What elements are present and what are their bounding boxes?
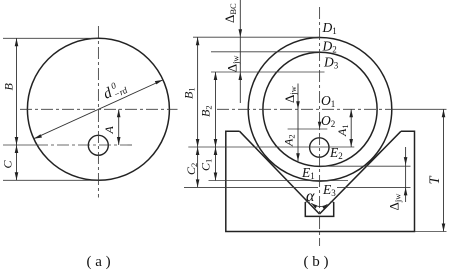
svg-text:D3: D3: [323, 55, 339, 71]
dimension djw right: [404, 147, 408, 202]
dimension C2: [196, 147, 200, 187]
svg-text:α: α: [306, 188, 315, 205]
V-block outline: [226, 131, 415, 231]
svg-text:Δjw: Δjw: [387, 193, 403, 211]
svg-text:D1: D1: [322, 20, 337, 36]
svg-text:A1: A1: [335, 124, 350, 137]
dimension C1: [214, 147, 218, 181]
top extension line (a): [3, 37, 98, 39]
svg-text:O2: O2: [321, 113, 335, 129]
notch top edge: [305, 201, 333, 203]
svg-text:E3: E3: [322, 182, 336, 198]
dimension line dBC/djw left: [239, 0, 243, 103]
svg-text:B2: B2: [199, 105, 214, 117]
dimension A (a): [117, 109, 121, 145]
extension of O1 line to T dim: [392, 108, 447, 110]
small hole circle (b): [310, 138, 329, 157]
svg-text:B1: B1: [182, 87, 197, 99]
vertical centerline (b): [319, 7, 321, 246]
dimension B (a): [15, 38, 19, 145]
svg-text:C1: C1: [199, 159, 214, 171]
inner bore circle (b): [263, 52, 377, 166]
base bottom extension: [415, 231, 447, 233]
dimension T: [442, 109, 446, 231]
D2 extension line: [211, 51, 320, 53]
D3 extension line: [211, 71, 325, 73]
svg-text:O1: O1: [321, 93, 335, 109]
svg-text:E1: E1: [301, 165, 315, 181]
svg-text:( a ): ( a ): [87, 254, 111, 270]
svg-text:Δjw: Δjw: [282, 85, 298, 103]
label d with tolerance (a): [100, 77, 129, 104]
dimension B1: [196, 37, 200, 147]
E2 line (inner bottom tangent): [320, 165, 411, 167]
dimension C (a): [15, 145, 19, 180]
svg-text:( b ): ( b ): [304, 254, 329, 270]
V face right: [320, 131, 401, 214]
arrow O1 to O2: [318, 122, 322, 129]
V face left: [240, 131, 320, 214]
D1 extension line: [193, 36, 320, 38]
svg-text:A: A: [102, 126, 116, 135]
svg-text:B: B: [2, 83, 16, 91]
E2/hole centerline at 147: [188, 146, 354, 148]
svg-text:T: T: [427, 176, 443, 185]
svg-text:ΔBC: ΔBC: [222, 3, 238, 23]
horizontal centerline O1 (b): [217, 108, 392, 110]
hole centerline (a): [3, 144, 36, 146]
O2 short centerline: [288, 128, 328, 130]
svg-text:Δjw: Δjw: [225, 55, 241, 73]
svg-text:C2: C2: [184, 163, 199, 175]
E1 line: [209, 180, 349, 182]
svg-text:C: C: [1, 160, 15, 169]
outer ring circle (b): [248, 38, 392, 182]
dimension djw inner: [296, 84, 300, 162]
bottom extension line (a): [3, 179, 98, 181]
angle alpha arc: [311, 203, 327, 209]
horizontal centerline (a): [20, 108, 178, 110]
main circle (a): [27, 38, 169, 180]
E3 line: [184, 186, 411, 188]
small hole circle (a): [88, 135, 108, 155]
svg-text:A2: A2: [282, 134, 297, 147]
dimension d diagonal (a): [34, 80, 163, 139]
vertical centerline (a): [97, 26, 99, 198]
svg-text:D2: D2: [322, 39, 337, 55]
dimension A1: [349, 109, 353, 147]
notch rectangle: [305, 202, 333, 216]
dimension B2: [214, 72, 218, 147]
